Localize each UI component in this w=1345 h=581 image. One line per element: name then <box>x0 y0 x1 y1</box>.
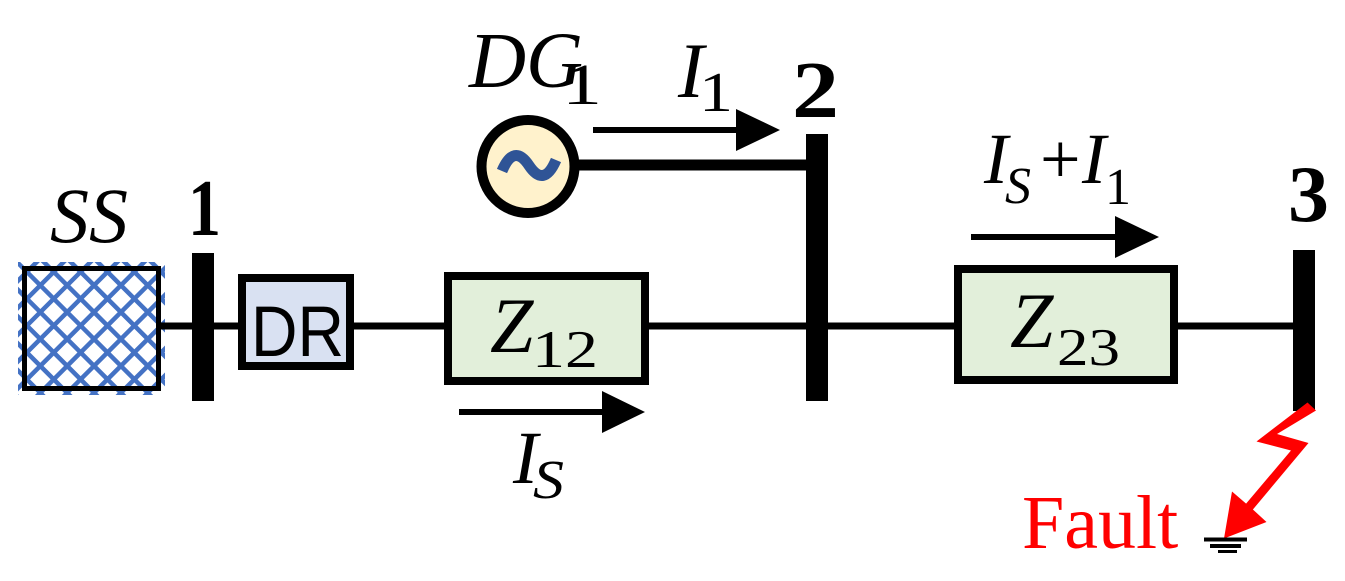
arrow I1 <box>593 127 740 133</box>
svg-text:DR: DR <box>251 293 344 372</box>
svg-text:12: 12 <box>532 321 598 379</box>
svg-text:1: 1 <box>562 52 602 117</box>
svg-text:23: 23 <box>1057 319 1120 377</box>
wire bus 1 to DR <box>214 323 240 330</box>
arrow Is+I1 <box>971 234 1119 240</box>
svg-text:S: S <box>1005 158 1031 215</box>
wire Z12 to bus 2 <box>645 323 808 330</box>
impedance Z23 box <box>958 269 1174 380</box>
wire SS to bus 1 <box>158 323 194 330</box>
svg-text:S: S <box>533 449 564 510</box>
svg-text:1: 1 <box>188 163 221 253</box>
svg-text:Z: Z <box>1010 277 1055 364</box>
svg-text:Z: Z <box>490 282 535 369</box>
wire DR to Z12 <box>354 323 446 330</box>
fault lightning bolt <box>1224 403 1316 539</box>
svg-text:2: 2 <box>792 45 839 135</box>
wire DG1 to bus 2 <box>575 160 808 171</box>
bus 1 <box>192 253 214 401</box>
svg-text:3: 3 <box>1288 149 1329 239</box>
bus 3 <box>1293 250 1315 411</box>
svg-text:SS: SS <box>50 172 128 259</box>
generator DG1 circle <box>482 120 575 213</box>
wire Z23 to bus 3 <box>1174 323 1295 330</box>
substation SS (hatched box) <box>18 262 165 395</box>
ground symbol <box>1204 538 1247 542</box>
relay DR box <box>242 278 350 366</box>
sine symbol <box>502 155 556 175</box>
svg-text:1: 1 <box>1105 159 1131 216</box>
svg-text:Fault: Fault <box>1022 481 1178 565</box>
svg-text:+: + <box>1040 119 1081 199</box>
bus 2 <box>806 134 828 401</box>
wire bus 2 to Z23 <box>828 323 956 330</box>
impedance Z12 box <box>448 276 645 381</box>
svg-text:1: 1 <box>699 62 733 124</box>
arrow Is (below Z12) <box>459 409 606 415</box>
